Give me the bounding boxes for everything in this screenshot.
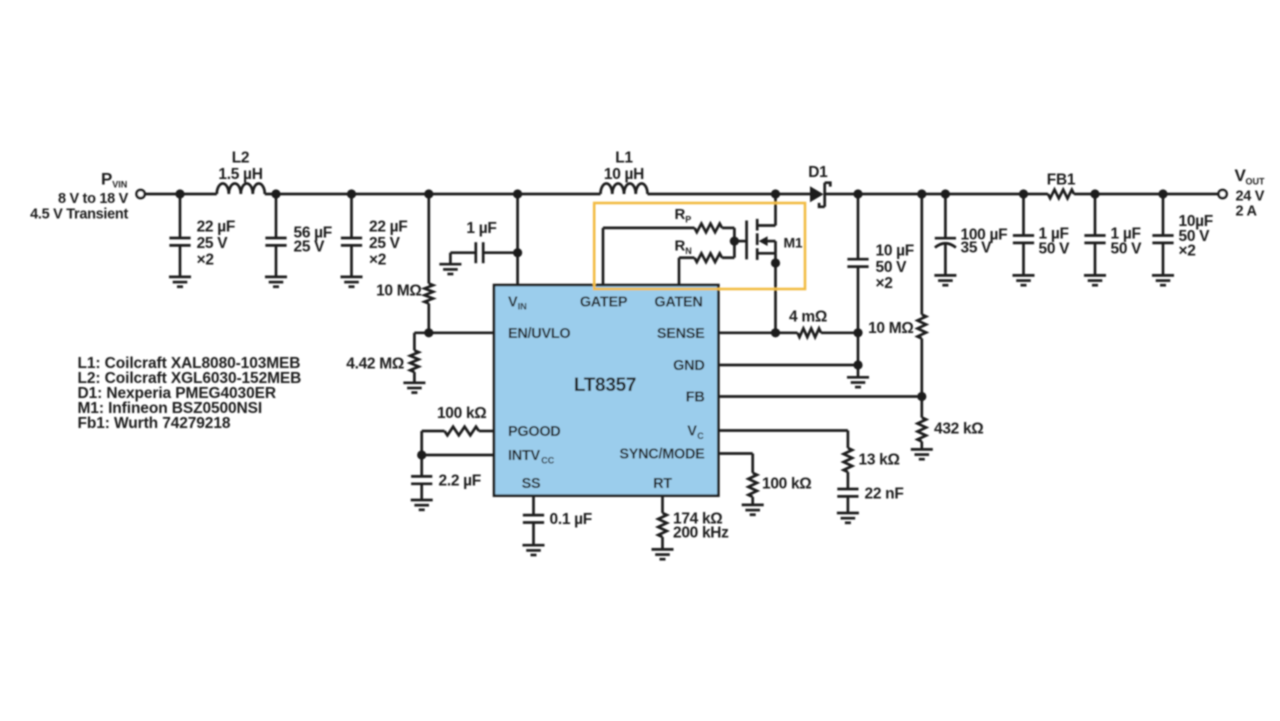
svg-text:4.42 MΩ: 4.42 MΩ <box>346 356 404 373</box>
svg-text:22 nF: 22 nF <box>865 486 904 503</box>
svg-text:SS: SS <box>522 476 541 492</box>
svg-text:INTV: INTV <box>508 448 540 464</box>
svg-text:P: P <box>685 215 691 225</box>
svg-text:35 V: 35 V <box>961 239 993 256</box>
svg-text:10 MΩ: 10 MΩ <box>376 283 421 300</box>
svg-text:SYNC/MODE: SYNC/MODE <box>619 447 705 463</box>
svg-text:RT: RT <box>653 476 672 492</box>
svg-text:Fb1: Wurth 74279218: Fb1: Wurth 74279218 <box>78 415 231 432</box>
svg-text:8 V to 18 V: 8 V to 18 V <box>58 191 129 207</box>
svg-text:GATEP: GATEP <box>580 294 628 310</box>
svg-text:22 µF: 22 µF <box>369 218 407 235</box>
svg-text:25 V: 25 V <box>294 239 326 256</box>
svg-text:1 µF: 1 µF <box>466 220 496 237</box>
svg-text:100 kΩ: 100 kΩ <box>762 476 811 493</box>
svg-text:V: V <box>687 424 697 440</box>
svg-text:100 kΩ: 100 kΩ <box>437 405 486 422</box>
svg-text:SENSE: SENSE <box>657 326 705 342</box>
svg-text:FB1: FB1 <box>1047 171 1076 188</box>
svg-text:10 µF: 10 µF <box>876 243 914 260</box>
svg-text:50 V: 50 V <box>1111 240 1143 257</box>
svg-text:VIN: VIN <box>112 180 127 190</box>
svg-text:25 V: 25 V <box>197 235 229 252</box>
svg-text:10 MΩ: 10 MΩ <box>868 320 913 337</box>
svg-text:24 V: 24 V <box>1236 189 1265 205</box>
svg-text:OUT: OUT <box>1246 177 1266 187</box>
svg-text:PGOOD: PGOOD <box>508 424 560 440</box>
svg-text:L2: L2 <box>232 150 250 167</box>
svg-text:1.5 µH: 1.5 µH <box>218 166 262 183</box>
svg-text:0.1 µF: 0.1 µF <box>550 511 592 528</box>
svg-text:2.2 µF: 2.2 µF <box>439 472 481 489</box>
svg-text:IN: IN <box>518 302 527 312</box>
svg-text:4.5 V Transient: 4.5 V Transient <box>30 207 128 223</box>
svg-text:N: N <box>685 246 692 256</box>
svg-text:22 µF: 22 µF <box>197 218 235 235</box>
svg-text:GND: GND <box>673 358 704 374</box>
svg-text:13 kΩ: 13 kΩ <box>859 452 900 469</box>
svg-text:D1: D1 <box>808 164 828 181</box>
svg-text:C: C <box>697 431 704 441</box>
svg-text:EN/UVLO: EN/UVLO <box>508 326 570 342</box>
svg-text:×2: ×2 <box>369 251 386 268</box>
svg-text:10 µH: 10 µH <box>604 166 644 183</box>
svg-text:50 V: 50 V <box>876 259 908 276</box>
svg-text:432 kΩ: 432 kΩ <box>934 421 983 438</box>
svg-text:200 kHz: 200 kHz <box>673 524 729 541</box>
svg-text:FB: FB <box>686 390 705 406</box>
svg-text:2 A: 2 A <box>1236 204 1258 220</box>
svg-text:50 V: 50 V <box>1039 240 1071 257</box>
svg-text:L1: L1 <box>615 150 633 167</box>
svg-text:CC: CC <box>541 455 554 465</box>
svg-text:P: P <box>101 170 112 189</box>
svg-text:×2: ×2 <box>1179 243 1196 260</box>
svg-text:×2: ×2 <box>876 275 893 292</box>
svg-text:4 mΩ: 4 mΩ <box>789 309 827 326</box>
svg-text:×2: ×2 <box>197 251 214 268</box>
svg-text:R: R <box>675 238 686 255</box>
svg-text:R: R <box>675 206 686 223</box>
svg-text:GATEN: GATEN <box>654 294 702 310</box>
svg-text:V: V <box>508 294 518 310</box>
svg-text:M1: M1 <box>784 235 803 251</box>
svg-text:LT8357: LT8357 <box>574 375 636 396</box>
svg-text:25 V: 25 V <box>369 235 401 252</box>
